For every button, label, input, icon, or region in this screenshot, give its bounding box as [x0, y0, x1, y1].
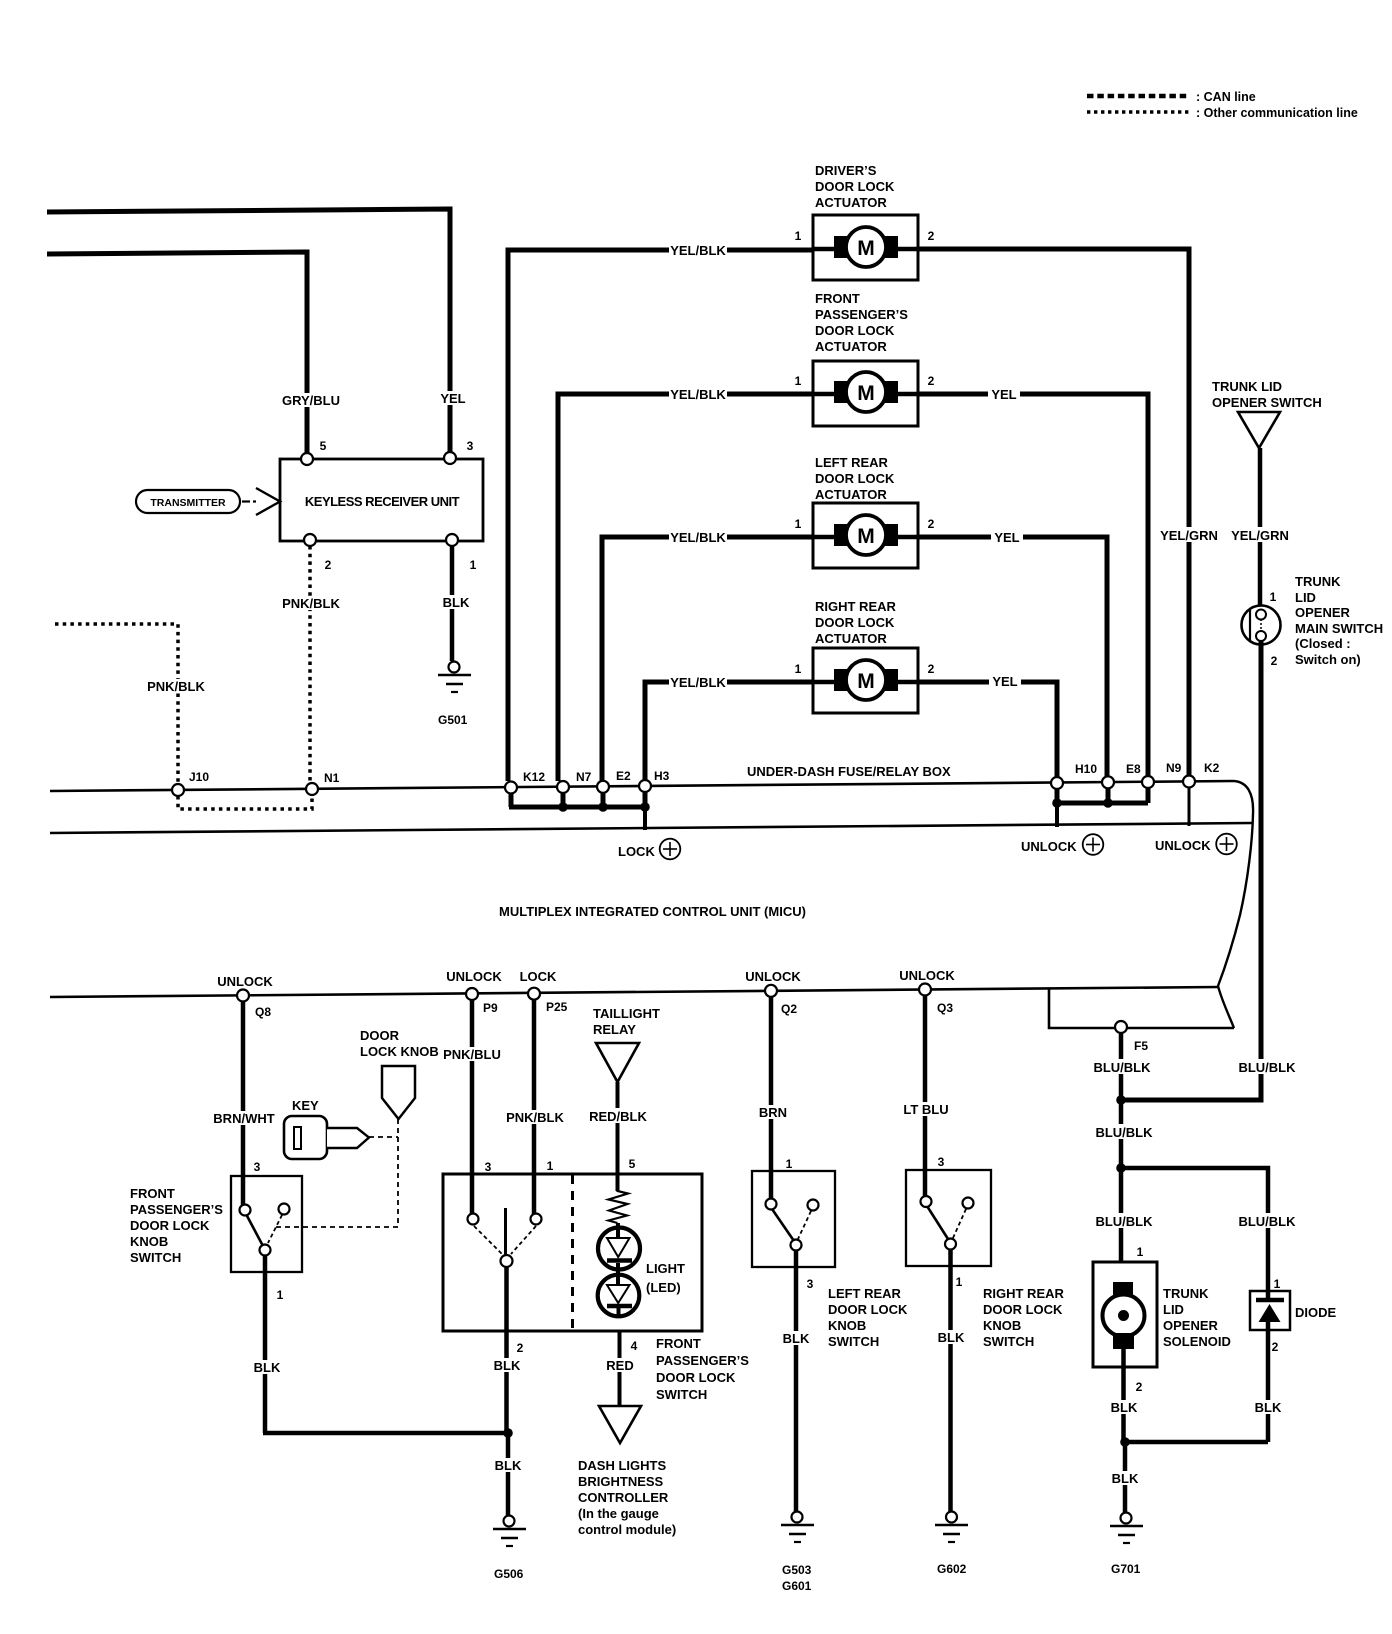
svg-text:KNOB: KNOB	[130, 1234, 168, 1249]
svg-text:1: 1	[1274, 1277, 1281, 1291]
front passenger's door lock knob switch	[231, 1176, 302, 1272]
svg-text:1: 1	[795, 229, 802, 243]
svg-text:(LED): (LED)	[646, 1280, 681, 1295]
svg-text:Q8: Q8	[255, 1005, 271, 1019]
svg-text:Q3: Q3	[937, 1001, 953, 1015]
under-dash fuse/relay box right edge curve	[1218, 781, 1253, 1028]
svg-text:N9: N9	[1166, 761, 1182, 775]
svg-text:YEL: YEL	[994, 530, 1019, 545]
LED 1	[598, 1223, 640, 1270]
svg-text:2: 2	[1272, 1340, 1279, 1354]
svg-text:SWITCH: SWITCH	[983, 1334, 1034, 1349]
fuse box internal bus right: H10 E8 N9	[1052, 787, 1148, 827]
label BLK	[441, 595, 471, 610]
svg-text:3: 3	[938, 1155, 945, 1169]
svg-text:(Closed :: (Closed :	[1295, 636, 1351, 651]
LED 2	[598, 1263, 640, 1318]
svg-text:PNK/BLU: PNK/BLU	[443, 1047, 501, 1062]
svg-text:SWITCH: SWITCH	[130, 1250, 181, 1265]
keyless pin 1	[446, 534, 458, 546]
wire BLU/BLK F5 down	[1119, 1033, 1124, 1262]
svg-text:UNLOCK: UNLOCK	[899, 968, 955, 983]
svg-text:RED/BLK: RED/BLK	[589, 1109, 647, 1124]
legend CAN line sample	[1087, 94, 1190, 99]
svg-text:K12: K12	[523, 770, 545, 784]
svg-text:DOOR LOCK: DOOR LOCK	[130, 1218, 210, 1233]
wire RED/BLK taillight relay to pin 5	[616, 1082, 620, 1191]
svg-text:SOLENOID: SOLENOID	[1163, 1334, 1231, 1349]
trunk lid opener main switch	[1242, 590, 1281, 668]
svg-text:BLU/BLK: BLU/BLK	[1095, 1125, 1153, 1140]
junction to diode branch	[1116, 1163, 1126, 1173]
svg-text:TRANSMITTER: TRANSMITTER	[150, 497, 226, 509]
svg-text:PASSENGER’S: PASSENGER’S	[815, 307, 908, 322]
transmitter oval	[136, 490, 240, 513]
svg-text:H3: H3	[654, 769, 670, 783]
front passenger's door lock actuator M2	[795, 361, 935, 426]
svg-text:KEY: KEY	[292, 1098, 319, 1113]
svg-text:P9: P9	[483, 1001, 498, 1015]
svg-text:M: M	[857, 237, 875, 260]
svg-text:KNOB: KNOB	[983, 1318, 1021, 1333]
wire BLK diode to junction	[1125, 1440, 1268, 1445]
wire PNK/BLU P9 down	[470, 1000, 475, 1216]
svg-text:2: 2	[928, 517, 935, 531]
svg-text:FRONT: FRONT	[130, 1186, 175, 1201]
svg-text:UNLOCK: UNLOCK	[1021, 839, 1077, 854]
svg-text:1: 1	[1270, 590, 1277, 604]
svg-text:E8: E8	[1126, 762, 1141, 776]
dotted link J10 to N1 below box line	[178, 795, 312, 809]
right rear door lock actuator M4	[795, 648, 935, 713]
svg-text:BRN/WHT: BRN/WHT	[213, 1111, 274, 1126]
svg-text:KEYLESS RECEIVER UNIT: KEYLESS RECEIVER UNIT	[305, 494, 460, 509]
wire BLK right rear knob switch to G602	[948, 1249, 953, 1512]
svg-text:BLK: BLK	[1112, 1471, 1139, 1486]
switch contacts inside	[468, 1208, 542, 1267]
svg-text:G501: G501	[438, 713, 468, 727]
svg-text:TRUNK: TRUNK	[1295, 574, 1341, 589]
svg-text:Switch on): Switch on)	[1295, 652, 1361, 667]
svg-text:YEL/BLK: YEL/BLK	[670, 530, 726, 545]
svg-text:GRY/BLU: GRY/BLU	[282, 393, 340, 408]
wire BLK to G506 junction	[263, 1431, 508, 1436]
connector N9	[1142, 776, 1154, 788]
connector K12	[505, 782, 517, 794]
connector K2	[1183, 776, 1195, 788]
svg-text:OPENER SWITCH: OPENER SWITCH	[1212, 395, 1322, 410]
svg-text:RIGHT REAR: RIGHT REAR	[983, 1286, 1065, 1301]
ground G503/G601	[781, 1512, 814, 1594]
trunk lid opener switch symbol	[1238, 412, 1280, 448]
connector Q8 on MICU bottom	[237, 990, 249, 1002]
svg-text:control module): control module)	[578, 1522, 676, 1537]
svg-text:3: 3	[254, 1160, 261, 1174]
svg-text:: CAN line: : CAN line	[1196, 90, 1256, 104]
svg-text:1: 1	[795, 374, 802, 388]
MICU bottom tab	[1049, 988, 1234, 1028]
svg-text:BLK: BLK	[783, 1331, 810, 1346]
svg-text:2: 2	[928, 374, 935, 388]
taillight relay symbol	[596, 1043, 639, 1082]
ground G602	[935, 1512, 968, 1577]
wire BLK knob switch pin 1 down	[263, 1255, 268, 1433]
svg-text:1: 1	[795, 517, 802, 531]
svg-text:ACTUATOR: ACTUATOR	[815, 339, 887, 354]
svg-text:PNK/BLK: PNK/BLK	[506, 1110, 564, 1125]
svg-text:LT BLU: LT BLU	[903, 1102, 948, 1117]
svg-text:RELAY: RELAY	[593, 1022, 636, 1037]
keyless pin 3	[444, 452, 456, 464]
connector E2	[597, 781, 609, 793]
svg-text:BLU/BLK: BLU/BLK	[1095, 1214, 1153, 1229]
svg-text:3: 3	[807, 1277, 814, 1291]
dashed link key to knob line	[369, 1136, 398, 1138]
svg-text:G701: G701	[1111, 1562, 1141, 1576]
svg-text:ACTUATOR: ACTUATOR	[815, 487, 887, 502]
svg-text:2: 2	[1136, 1380, 1143, 1394]
svg-text:1: 1	[956, 1275, 963, 1289]
front passenger's door lock switch box	[443, 1174, 702, 1331]
svg-text:LOCK KNOB: LOCK KNOB	[360, 1044, 439, 1059]
svg-text:P25: P25	[546, 1000, 568, 1014]
wire PNK/BLK P25 down	[532, 1000, 537, 1216]
dashed divider inside switch box	[571, 1175, 574, 1330]
svg-text:Q2: Q2	[781, 1002, 797, 1016]
wire YEL/BLK driver's actuator feed	[508, 250, 813, 781]
svg-text:UNLOCK: UNLOCK	[745, 969, 801, 984]
fuse box internal bus left: K12 N7 E2 H3	[509, 791, 650, 830]
svg-text:YEL: YEL	[440, 391, 465, 406]
wire YEL/BLK front passenger actuator feed	[558, 394, 813, 781]
svg-text:DRIVER’S: DRIVER’S	[815, 163, 877, 178]
svg-text:BLU/BLK: BLU/BLK	[1238, 1060, 1296, 1075]
connector N7	[557, 781, 569, 793]
svg-text:FRONT: FRONT	[656, 1336, 701, 1351]
svg-text:YEL/GRN: YEL/GRN	[1231, 528, 1289, 543]
svg-text:N1: N1	[324, 771, 340, 785]
svg-text:H10: H10	[1075, 762, 1097, 776]
svg-text:M: M	[857, 382, 875, 405]
svg-text:DOOR LOCK: DOOR LOCK	[828, 1302, 908, 1317]
svg-text:E2: E2	[616, 769, 631, 783]
svg-text:N7: N7	[576, 770, 592, 784]
svg-text:PNK/BLK: PNK/BLK	[282, 596, 340, 611]
svg-text:YEL/GRN: YEL/GRN	[1160, 528, 1218, 543]
connector E8	[1102, 776, 1114, 788]
svg-text:PASSENGER’S: PASSENGER’S	[656, 1353, 749, 1368]
wire BLK left rear knob switch to G503	[794, 1250, 799, 1512]
svg-text:F5: F5	[1134, 1039, 1148, 1053]
svg-text:MAIN SWITCH: MAIN SWITCH	[1295, 621, 1383, 636]
junction BLK	[1120, 1437, 1130, 1447]
svg-text:MULTIPLEX INTEGRATED CONTROL U: MULTIPLEX INTEGRATED CONTROL UNIT (MICU)	[499, 904, 806, 919]
label GRY/BLU	[280, 393, 342, 408]
svg-text:G602: G602	[937, 1562, 967, 1576]
svg-text:2: 2	[1271, 654, 1278, 668]
junction F5/main switch	[1116, 1095, 1126, 1105]
svg-text:DOOR: DOOR	[360, 1028, 400, 1043]
svg-text:BLK: BLK	[938, 1330, 965, 1345]
svg-text:LID: LID	[1295, 590, 1316, 605]
svg-text:BLK: BLK	[443, 595, 470, 610]
connector P25	[528, 988, 540, 1000]
svg-text:UNDER-DASH FUSE/RELAY BOX: UNDER-DASH FUSE/RELAY BOX	[747, 764, 951, 779]
svg-text:3: 3	[485, 1160, 492, 1174]
svg-text:FRONT: FRONT	[815, 291, 860, 306]
svg-text:SWITCH: SWITCH	[656, 1387, 707, 1402]
label PNK/BLK	[146, 679, 206, 694]
svg-text:OPENER: OPENER	[1163, 1318, 1219, 1333]
dashed knob linkage	[397, 1119, 399, 1227]
svg-text:LEFT REAR: LEFT REAR	[815, 455, 889, 470]
legend other communication line sample	[1087, 110, 1190, 114]
svg-text:DOOR LOCK: DOOR LOCK	[815, 615, 895, 630]
svg-text:G506: G506	[494, 1567, 524, 1581]
svg-text:UNLOCK: UNLOCK	[1155, 838, 1211, 853]
wire BLU/BLK branch to diode	[1121, 1168, 1268, 1300]
svg-text:LID: LID	[1163, 1302, 1184, 1317]
svg-text:OPENER: OPENER	[1295, 605, 1351, 620]
connector P9	[466, 988, 478, 1000]
wire PNK/BLK dotted from left edge to J10	[55, 624, 178, 783]
svg-text:(In the gauge: (In the gauge	[578, 1506, 659, 1521]
connector F5 on MICU tab	[1115, 1021, 1127, 1033]
wire YEL feed to keyless pin 3	[47, 209, 450, 454]
wire YEL driver's actuator to K2	[918, 249, 1189, 777]
svg-text:K2: K2	[1204, 761, 1220, 775]
connector Q2	[765, 985, 777, 997]
svg-text:1: 1	[1137, 1245, 1144, 1259]
svg-text:RED: RED	[606, 1358, 633, 1373]
svg-text:BLK: BLK	[254, 1360, 281, 1375]
svg-text:TRUNK: TRUNK	[1163, 1286, 1209, 1301]
svg-text:YEL/BLK: YEL/BLK	[670, 675, 726, 690]
svg-text:BRIGHTNESS: BRIGHTNESS	[578, 1474, 664, 1489]
svg-text:YEL/BLK: YEL/BLK	[670, 243, 726, 258]
svg-text:M: M	[857, 670, 875, 693]
svg-text:BLU/BLK: BLU/BLK	[1093, 1060, 1151, 1075]
under-dash fuse/relay box top line	[50, 781, 1234, 791]
svg-text:BLK: BLK	[1111, 1400, 1138, 1415]
svg-text:ACTUATOR: ACTUATOR	[815, 631, 887, 646]
svg-text:DOOR LOCK: DOOR LOCK	[815, 471, 895, 486]
svg-text:: Other communication line: : Other communication line	[1196, 106, 1358, 120]
transmitter dashed arrow	[242, 500, 250, 502]
svg-text:TAILLIGHT: TAILLIGHT	[593, 1006, 660, 1021]
wire BLK solenoid pin 2 down	[1121, 1349, 1126, 1442]
svg-text:LIGHT: LIGHT	[646, 1261, 685, 1276]
svg-text:4: 4	[631, 1339, 638, 1353]
wire BLK switch pin 2 down to G506	[504, 1267, 509, 1433]
wire PNK/BLK dotted from keyless pin 2	[308, 546, 312, 783]
wire BRN/WHT Q8 to front passenger knob switch	[241, 1001, 246, 1211]
wire GRY/BLU feed to keyless pin 5	[47, 252, 307, 455]
svg-text:1: 1	[277, 1288, 284, 1302]
resistor inside switch box	[609, 1189, 629, 1223]
wire BLK diode pin 2 down	[1266, 1322, 1271, 1442]
svg-text:2: 2	[325, 558, 332, 572]
LOCK coil symbol	[618, 839, 680, 860]
wire YEL/GRN trunk lid opener switch to main switch	[1258, 448, 1263, 610]
svg-text:RIGHT REAR: RIGHT REAR	[815, 599, 897, 614]
svg-text:DIODE: DIODE	[1295, 1305, 1337, 1320]
keyless pin 2	[304, 534, 316, 546]
wire LT BLU Q3 down	[923, 996, 928, 1198]
left rear door lock knob switch	[752, 1171, 835, 1267]
svg-text:G503: G503	[782, 1563, 812, 1577]
wire YEL right rear actuator to H10	[918, 682, 1057, 778]
svg-text:1: 1	[547, 1159, 554, 1173]
svg-text:YEL/BLK: YEL/BLK	[670, 387, 726, 402]
svg-text:BLU/BLK: BLU/BLK	[1238, 1214, 1296, 1229]
K2 stub to MICU	[1188, 787, 1191, 826]
svg-text:DOOR LOCK: DOOR LOCK	[815, 323, 895, 338]
svg-text:SWITCH: SWITCH	[828, 1334, 879, 1349]
wire BRN Q2 down	[769, 997, 774, 1206]
ground G501	[438, 662, 471, 728]
label PNK/BLK	[281, 596, 341, 611]
svg-text:5: 5	[320, 439, 327, 453]
svg-text:2: 2	[517, 1341, 524, 1355]
wire BLK keyless pin 1 to G501	[450, 546, 455, 661]
wire RED switch pin 4 to dash lights brightness controller	[618, 1331, 622, 1406]
door lock knob symbol	[382, 1066, 415, 1119]
wire YEL/BLK left rear actuator feed	[602, 537, 813, 781]
svg-text:UNLOCK: UNLOCK	[446, 969, 502, 984]
svg-text:5: 5	[629, 1157, 636, 1171]
svg-text:YEL: YEL	[991, 387, 1016, 402]
keyless receiver unit box	[280, 459, 483, 541]
svg-text:PNK/BLK: PNK/BLK	[147, 679, 205, 694]
svg-text:CONTROLLER: CONTROLLER	[578, 1490, 669, 1505]
svg-text:1: 1	[786, 1157, 793, 1171]
connector Q3	[919, 984, 931, 996]
svg-text:3: 3	[467, 439, 474, 453]
MICU top line	[50, 823, 1252, 833]
svg-text:YEL: YEL	[992, 674, 1017, 689]
driver's door lock actuator M1	[795, 215, 935, 280]
svg-text:BLK: BLK	[495, 1458, 522, 1473]
svg-text:TRUNK LID: TRUNK LID	[1212, 379, 1282, 394]
svg-text:2: 2	[928, 229, 935, 243]
UNLOCK coil symbol 1	[1021, 834, 1103, 855]
svg-text:PASSENGER’S: PASSENGER’S	[130, 1202, 223, 1217]
svg-text:ACTUATOR: ACTUATOR	[815, 195, 887, 210]
svg-text:UNLOCK: UNLOCK	[217, 974, 273, 989]
svg-text:DOOR LOCK: DOOR LOCK	[983, 1302, 1063, 1317]
svg-text:LOCK: LOCK	[618, 844, 655, 859]
key symbol	[284, 1116, 369, 1159]
svg-text:LOCK: LOCK	[520, 969, 557, 984]
keyless pin 5	[301, 453, 313, 465]
wire YEL front passenger actuator to N9	[918, 394, 1148, 777]
svg-text:LEFT REAR: LEFT REAR	[828, 1286, 902, 1301]
svg-text:DOOR LOCK: DOOR LOCK	[815, 179, 895, 194]
wire BLU/BLK main switch pin 2 down	[1122, 641, 1261, 1100]
MICU bottom line	[50, 987, 1218, 997]
left rear door lock actuator M3	[795, 503, 935, 568]
dash lights brightness controller symbol	[599, 1406, 641, 1443]
connector H10	[1051, 777, 1063, 789]
svg-text:1: 1	[795, 662, 802, 676]
ground G701	[1110, 1513, 1143, 1577]
svg-text:BRN: BRN	[759, 1105, 787, 1120]
connector J10	[172, 784, 184, 796]
svg-text:M: M	[857, 525, 875, 548]
label YEL	[438, 391, 468, 406]
svg-text:DOOR LOCK: DOOR LOCK	[656, 1370, 736, 1385]
svg-text:KNOB: KNOB	[828, 1318, 866, 1333]
svg-text:J10: J10	[189, 770, 209, 784]
connector H3	[639, 780, 651, 792]
svg-text:G601: G601	[782, 1579, 812, 1593]
label YEL/GRN on K2 wire	[1160, 527, 1219, 543]
svg-text:DASH LIGHTS: DASH LIGHTS	[578, 1458, 666, 1473]
UNLOCK coil symbol 2	[1155, 834, 1237, 855]
ground G506	[493, 1516, 526, 1582]
svg-text:1: 1	[470, 558, 477, 572]
connector N1	[306, 783, 318, 795]
wire YEL/BLK right rear actuator feed	[645, 682, 813, 781]
svg-text:2: 2	[928, 662, 935, 676]
svg-text:BLK: BLK	[494, 1358, 521, 1373]
svg-text:BLK: BLK	[1255, 1400, 1282, 1415]
wire YEL left rear actuator to E8	[918, 537, 1107, 777]
right rear door lock knob switch	[906, 1170, 991, 1266]
